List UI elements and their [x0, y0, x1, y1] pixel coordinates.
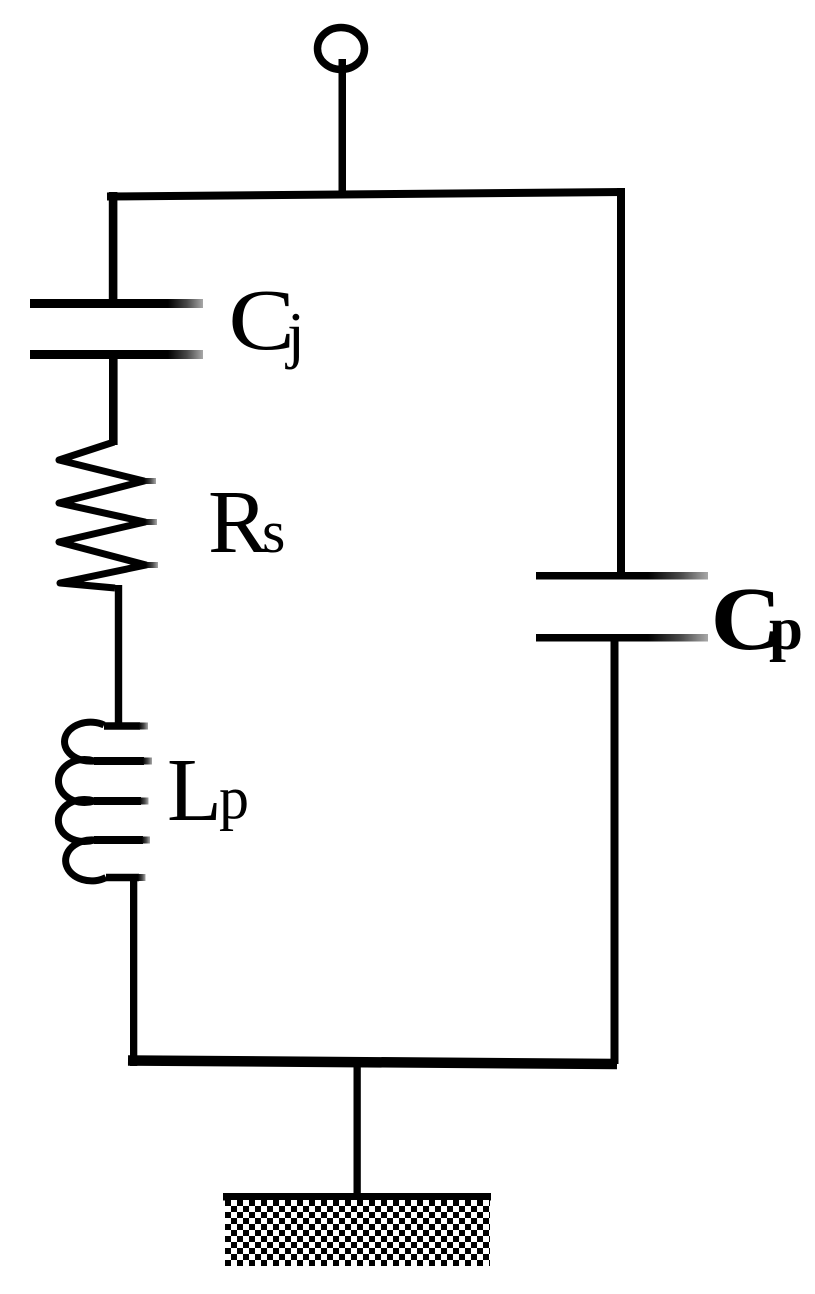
- svg-text:s: s: [262, 499, 285, 565]
- svg-text:j: j: [285, 299, 305, 370]
- svg-text:p: p: [769, 596, 803, 663]
- svg-text:p: p: [219, 765, 249, 831]
- svg-text:C: C: [228, 273, 295, 369]
- svg-text:L: L: [167, 741, 222, 840]
- svg-text:R: R: [208, 473, 268, 572]
